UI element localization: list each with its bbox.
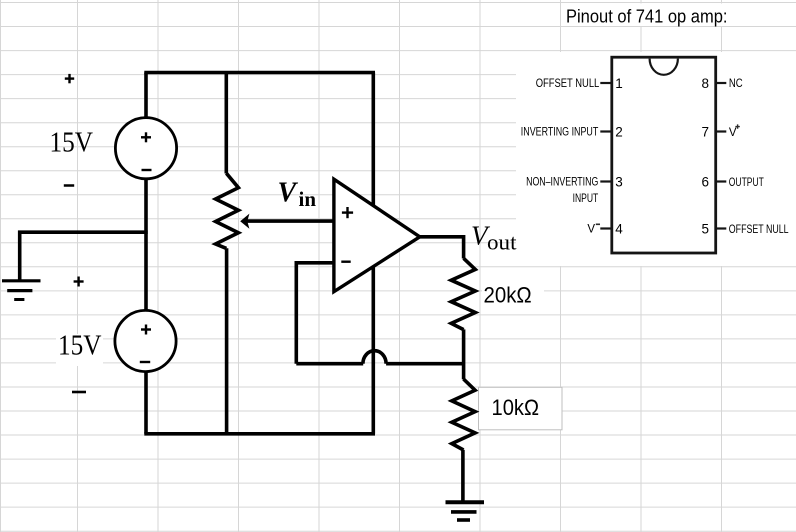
svg-text:OFFSET NULL: OFFSET NULL <box>729 224 789 236</box>
svg-text:2: 2 <box>615 124 623 139</box>
svg-text:Pinout of 741 op amp:: Pinout of 741 op amp: <box>566 6 728 26</box>
svg-text:OUTPUT: OUTPUT <box>729 177 764 189</box>
svg-text:20kΩ: 20kΩ <box>484 282 532 307</box>
svg-text:1: 1 <box>615 76 623 91</box>
svg-text:7: 7 <box>701 124 709 139</box>
svg-text:NC: NC <box>729 78 743 90</box>
svg-text:in: in <box>299 187 317 211</box>
svg-text:NON–INVERTING: NON–INVERTING <box>526 177 598 189</box>
svg-text:V: V <box>587 223 595 235</box>
svg-text:6: 6 <box>701 174 709 189</box>
svg-text:15V: 15V <box>58 331 102 362</box>
svg-text:V: V <box>729 127 737 139</box>
svg-text:OFFSET NULL: OFFSET NULL <box>536 78 600 90</box>
svg-text:V: V <box>278 177 299 208</box>
svg-text:5: 5 <box>701 221 709 236</box>
svg-text:4: 4 <box>615 221 623 236</box>
svg-text:8: 8 <box>701 76 709 91</box>
svg-text:out: out <box>487 230 517 255</box>
svg-text:10kΩ: 10kΩ <box>492 395 540 420</box>
svg-text:INVERTING INPUT: INVERTING INPUT <box>521 127 599 139</box>
svg-text:3: 3 <box>615 174 623 189</box>
svg-text:15V: 15V <box>50 128 94 159</box>
svg-text:INPUT: INPUT <box>573 193 599 205</box>
